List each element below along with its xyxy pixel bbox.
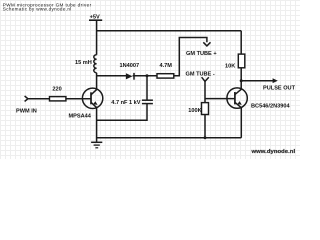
svg-text:+5V: +5V: [90, 14, 100, 20]
svg-text:15 mH: 15 mH: [75, 60, 92, 66]
svg-text:PWM IN: PWM IN: [16, 109, 37, 115]
svg-text:1N4007: 1N4007: [120, 63, 140, 69]
svg-text:BC546/2N3904: BC546/2N3904: [251, 103, 290, 109]
svg-text:220: 220: [52, 87, 61, 93]
svg-text:MPSA44: MPSA44: [69, 113, 92, 119]
svg-text:www.dynode.nl: www.dynode.nl: [251, 149, 296, 155]
svg-text:GM TUBE -: GM TUBE -: [186, 71, 215, 77]
svg-text:4.7M: 4.7M: [160, 63, 173, 69]
svg-text:Schematic by www.dynode.nl: Schematic by www.dynode.nl: [3, 7, 72, 12]
svg-text:PULSE OUT: PULSE OUT: [263, 85, 296, 91]
svg-text:100K: 100K: [188, 108, 201, 114]
svg-text:10K: 10K: [225, 64, 235, 70]
svg-text:4.7 nF 1 kV: 4.7 nF 1 kV: [111, 100, 140, 106]
svg-text:GM TUBE +: GM TUBE +: [186, 51, 217, 57]
